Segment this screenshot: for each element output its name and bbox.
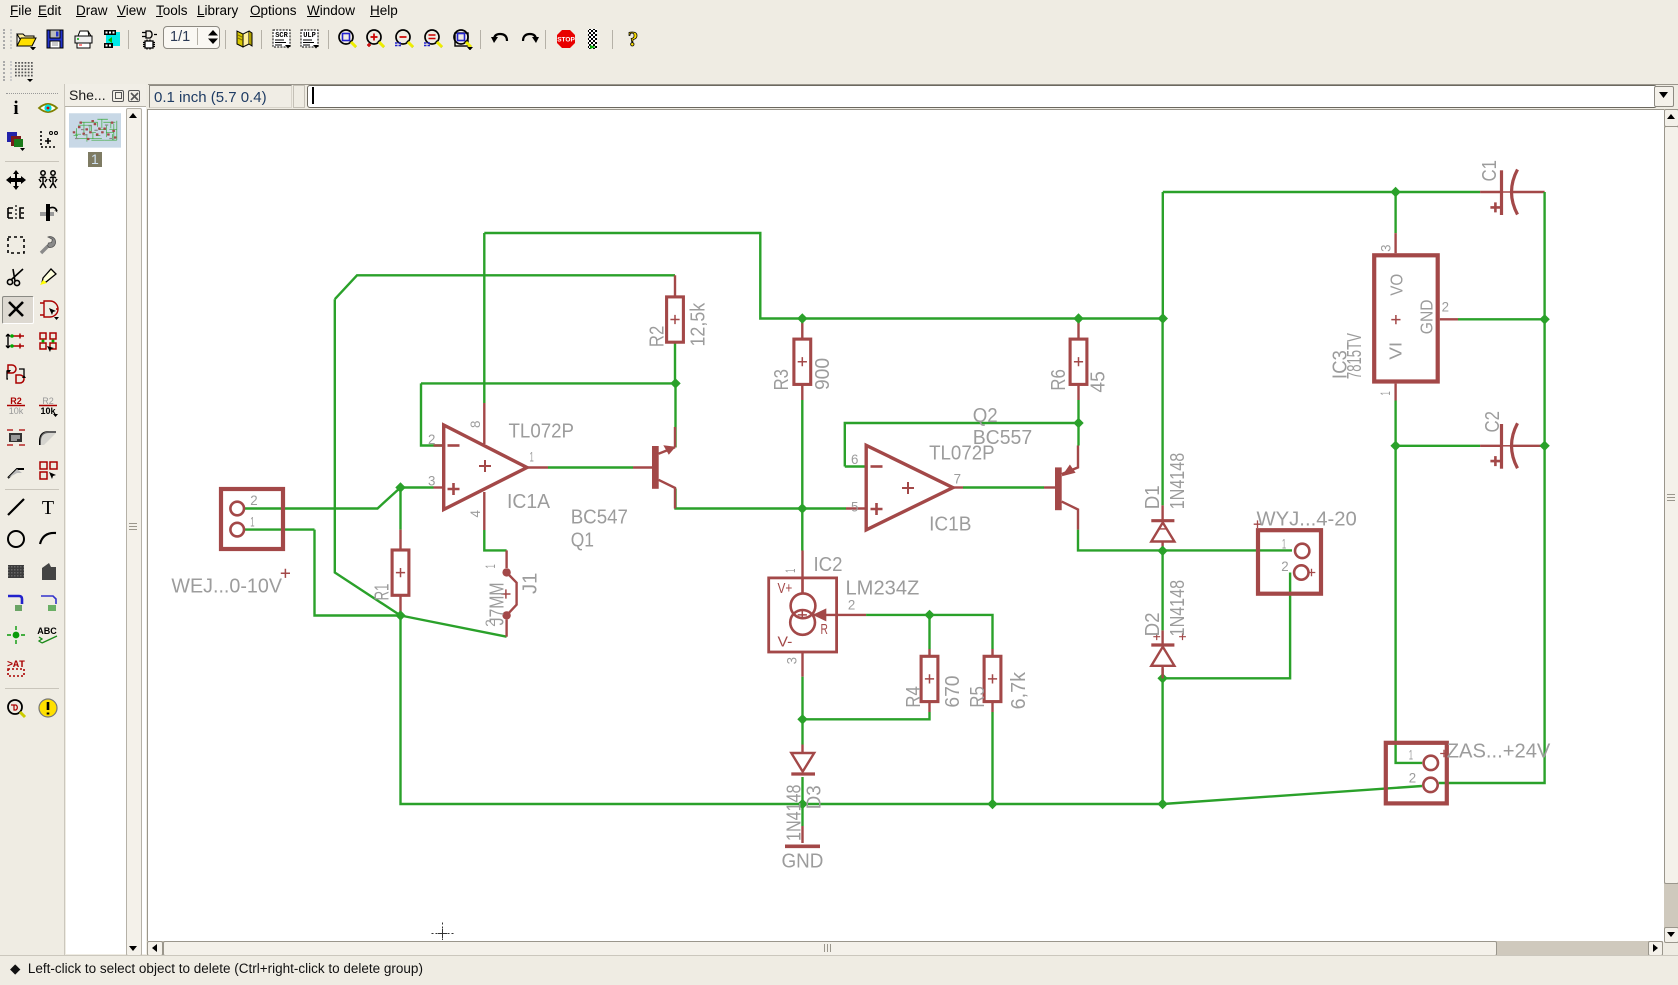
wire emitter rail to IC2 pin1 bbox=[801, 509, 803, 551]
menu bar bbox=[0, 0, 1678, 23]
junction bbox=[1073, 313, 1083, 323]
junction bbox=[1539, 314, 1549, 324]
wire D1 column upper bbox=[1162, 192, 1164, 319]
sheet 1 badge bbox=[88, 152, 101, 167]
wire GND rail diagonal to ZAS pin2 bbox=[1163, 786, 1422, 804]
wire +24V top to C1 bbox=[1163, 191, 1480, 193]
diode D3 1N4148 bbox=[791, 745, 815, 775]
cursor crosshair bbox=[432, 923, 454, 945]
wire IC1A pin2 stub bbox=[434, 444, 444, 446]
resistor R2 bbox=[667, 297, 684, 342]
wire Q2 base stub bbox=[1044, 486, 1055, 488]
wire to IC3 pin3 bbox=[1394, 192, 1396, 233]
connector X2 WYJ...4-20 bbox=[1254, 520, 1321, 593]
svg-text:SCR: SCR bbox=[275, 32, 288, 40]
svg-text:12,5k: 12,5k bbox=[687, 302, 710, 346]
wire node A diagonal to J1 pin2 bbox=[401, 616, 507, 637]
wire node to R1 top bbox=[399, 488, 401, 530]
toolbar row 2 bbox=[0, 56, 1678, 85]
junction bbox=[1157, 546, 1167, 556]
sheets panel bbox=[64, 84, 148, 955]
junction bbox=[987, 799, 997, 809]
svg-text:R1: R1 bbox=[371, 584, 394, 601]
svg-text:1: 1 bbox=[1409, 747, 1413, 763]
svg-text:5: 5 bbox=[851, 498, 859, 514]
svg-text:1: 1 bbox=[530, 449, 534, 465]
svg-text:BC547: BC547 bbox=[571, 505, 628, 528]
wire R4 top pin bbox=[928, 649, 930, 656]
svg-text:7: 7 bbox=[954, 470, 962, 486]
left tool palette bbox=[0, 84, 64, 955]
resistor R1 bbox=[392, 550, 409, 595]
svg-text:R4: R4 bbox=[902, 686, 925, 707]
wire D1 node to D2 bbox=[1161, 550, 1163, 630]
svg-text:2: 2 bbox=[1409, 770, 1417, 786]
wire net N1 top-left rail bbox=[484, 233, 1163, 319]
wire IC3 pin3 stub bbox=[1394, 233, 1396, 253]
svg-text:IC1A: IC1A bbox=[507, 490, 550, 513]
ground GND symbol bbox=[785, 844, 820, 848]
junction bbox=[1390, 441, 1400, 451]
svg-text:7815TV: 7815TV bbox=[1343, 333, 1366, 379]
status bar bbox=[0, 955, 1678, 985]
wire C2 right bbox=[1512, 445, 1545, 447]
svg-text:10k: 10k bbox=[9, 406, 24, 416]
svg-text:2: 2 bbox=[1442, 298, 1450, 314]
svg-text:ABC: ABC bbox=[37, 626, 57, 636]
wire R5 top pin bbox=[991, 649, 993, 656]
wire node to IC1A pin3 bbox=[401, 486, 434, 488]
junction bbox=[395, 610, 405, 620]
svg-text:1: 1 bbox=[782, 568, 798, 572]
horizontal scrollbar bbox=[147, 941, 1663, 956]
wire rail to D1 anode bbox=[1161, 319, 1163, 506]
wire R6 bottom pin bbox=[1077, 384, 1079, 400]
connector X3 ZAS...+24V bbox=[1386, 743, 1448, 804]
junction bbox=[1157, 673, 1167, 683]
svg-text:D2: D2 bbox=[1141, 612, 1164, 636]
wire IC1A pin1 stub bbox=[527, 466, 548, 468]
wire WEJ pin2 to IC1A pin3 bbox=[244, 488, 400, 509]
svg-text:Q2: Q2 bbox=[973, 404, 998, 427]
svg-text:IC1B: IC1B bbox=[929, 512, 971, 535]
wire R6 top pin bbox=[1077, 319, 1079, 340]
wire WEJ pin1 horizontal bbox=[244, 528, 314, 530]
current source IC2 LM234Z bbox=[769, 578, 837, 652]
wire IC1A pin8 supply drop bbox=[483, 233, 485, 403]
svg-text:900: 900 bbox=[811, 358, 834, 390]
wire IC1A output to Q1 base bbox=[548, 466, 633, 468]
svg-text:C1: C1 bbox=[1478, 160, 1501, 181]
wire IC2 pin3 stub bbox=[801, 652, 803, 677]
wire node FB to IC1A pin2 horizontal bbox=[421, 382, 676, 384]
junction bbox=[1073, 418, 1083, 428]
svg-text:?: ? bbox=[628, 28, 639, 50]
svg-text:2: 2 bbox=[250, 492, 258, 508]
toolbar row 1 bbox=[0, 22, 1678, 57]
wire R4 bottom pin bbox=[928, 701, 930, 712]
wire Q1 base stub bbox=[633, 466, 652, 468]
wire D1 to node bbox=[1161, 542, 1163, 551]
capacitor C1 (polarized) bbox=[1480, 170, 1517, 216]
svg-text:D1: D1 bbox=[1141, 485, 1164, 509]
wire Q2 collector to D1 node bbox=[1078, 530, 1163, 551]
svg-text:1N4148: 1N4148 bbox=[1166, 580, 1189, 637]
junction bbox=[797, 714, 807, 724]
junction bbox=[1157, 799, 1167, 809]
wire D3 to GND symbol bbox=[801, 826, 803, 843]
wire GND bottom rail bbox=[401, 616, 1163, 805]
svg-text:i: i bbox=[13, 98, 18, 119]
wire IC1B output to Q2 base bbox=[963, 486, 1044, 488]
svg-text:3: 3 bbox=[428, 472, 436, 488]
svg-text:R6: R6 bbox=[1047, 369, 1070, 390]
wire R3 bottom pin bbox=[801, 384, 803, 400]
wire WEJ pin1 to node A bbox=[315, 530, 401, 616]
wire D2 to node bbox=[1161, 669, 1163, 679]
diode D2 1N4148 bbox=[1151, 630, 1186, 678]
transistor Q1 BC547 bbox=[652, 427, 676, 509]
wire R5 bottom pin bbox=[991, 701, 993, 712]
svg-text:STOP: STOP bbox=[557, 37, 575, 44]
connector X1 WEJ...0-10V bbox=[221, 489, 290, 578]
svg-text:1: 1 bbox=[1282, 535, 1286, 551]
command row bbox=[0, 84, 1678, 109]
svg-text:V-: V- bbox=[778, 634, 793, 650]
svg-text:8: 8 bbox=[467, 420, 483, 428]
svg-text:2: 2 bbox=[428, 431, 436, 447]
svg-text:C2: C2 bbox=[1481, 411, 1504, 432]
resistor R4 bbox=[921, 656, 938, 701]
op-amp IC1A TL072P (gate A) bbox=[444, 403, 527, 530]
svg-text:R2: R2 bbox=[10, 396, 22, 406]
wire R3 top pin bbox=[801, 319, 803, 340]
wire IC2 pin1 stub bbox=[801, 551, 803, 594]
wire IC1B pin7 stub bbox=[953, 486, 963, 488]
vertical scrollbar bbox=[1664, 109, 1678, 941]
svg-text:670: 670 bbox=[941, 676, 964, 708]
wire to C2 left bbox=[1396, 445, 1481, 447]
junction bbox=[1158, 313, 1168, 323]
wire GND net down to ZAS pin2 bbox=[1439, 446, 1545, 783]
junction bbox=[670, 378, 680, 388]
svg-text:ZAS...+24V: ZAS...+24V bbox=[1447, 739, 1551, 762]
wire VI net down to ZAS pin1 bbox=[1396, 446, 1423, 763]
svg-text:J1: J1 bbox=[519, 573, 542, 594]
svg-text:4: 4 bbox=[467, 510, 483, 518]
sheets scrollbar bbox=[126, 108, 142, 956]
wire IC1B pin6 stub bbox=[845, 465, 866, 467]
wire WYJ pin2 to D2 node bbox=[1163, 573, 1291, 679]
junction bbox=[1539, 441, 1549, 451]
wire IC2 pin2 to R4 R5 top bbox=[866, 615, 992, 649]
wire D1 node to WYJ pin1 bbox=[1163, 549, 1292, 551]
wire C1 right bbox=[1512, 191, 1545, 193]
resistor R5 bbox=[984, 656, 1001, 701]
svg-text:TL072P: TL072P bbox=[509, 419, 575, 442]
wire Q1 collector to node FB bbox=[674, 383, 676, 447]
wire R3 bottom to emitter rail bbox=[801, 400, 803, 509]
wire left vertical to node A bbox=[335, 299, 401, 615]
svg-text:GND: GND bbox=[782, 849, 824, 872]
wire IC1A pin2 drop bbox=[421, 383, 444, 445]
capacitor C2 (polarized) bbox=[1480, 423, 1517, 469]
node VCC top rail net bbox=[0, 0, 1, 1]
wire IC1A pin3 stub bbox=[434, 486, 444, 488]
wire C1 to GND net corner bbox=[1543, 192, 1545, 319]
svg-text:45: 45 bbox=[1086, 371, 1109, 392]
svg-text:J7MM: J7MM bbox=[486, 582, 509, 625]
svg-text:R3: R3 bbox=[770, 369, 793, 390]
resistor R3 bbox=[794, 339, 811, 384]
svg-text:Q1: Q1 bbox=[571, 528, 594, 551]
svg-text:R2: R2 bbox=[42, 396, 54, 406]
svg-text:D3: D3 bbox=[802, 785, 825, 809]
wire IC3 pin1 to C2 bbox=[1394, 401, 1396, 446]
op-amp IC1B TL072P (gate B) bbox=[866, 445, 953, 530]
svg-text:6: 6 bbox=[851, 451, 859, 467]
wire R2 top pin bbox=[674, 275, 676, 296]
svg-text:LM234Z: LM234Z bbox=[846, 577, 920, 600]
svg-text:1: 1 bbox=[482, 564, 498, 568]
svg-text:3: 3 bbox=[1377, 244, 1393, 252]
svg-text:VI: VI bbox=[1385, 342, 1405, 360]
jumper J1 J7MM bbox=[501, 550, 516, 636]
sheet thumbnail bbox=[69, 111, 121, 150]
junction bbox=[1390, 187, 1400, 197]
resistor R6 bbox=[1070, 339, 1087, 384]
wire IC1A pin4 to J1 pin1 bbox=[484, 530, 506, 550]
wire IC3 pin2 to C rail bbox=[1458, 318, 1545, 320]
svg-text:1: 1 bbox=[250, 514, 254, 530]
svg-text:R2: R2 bbox=[645, 326, 668, 347]
junction bbox=[797, 503, 807, 513]
svg-text:2: 2 bbox=[1281, 558, 1289, 574]
wire C rail between C1 C2 bbox=[1543, 319, 1545, 446]
wire IC3 pin2 stub bbox=[1440, 318, 1458, 320]
svg-text:ULP: ULP bbox=[303, 32, 316, 40]
voltage regulator IC3 7815TV bbox=[1374, 255, 1438, 381]
wire IC1B pin6 feedback bbox=[845, 423, 1079, 467]
junction bbox=[797, 313, 807, 323]
wire R2 top feed bbox=[335, 275, 675, 299]
wire Q1 emitter rail bbox=[676, 489, 847, 509]
transistor Q2 BC557 bbox=[1055, 446, 1078, 530]
svg-text:1N4148: 1N4148 bbox=[783, 785, 806, 842]
svg-text:1: 1 bbox=[1377, 391, 1393, 395]
svg-text:R5: R5 bbox=[966, 686, 989, 707]
junction bbox=[797, 799, 807, 809]
svg-text:3: 3 bbox=[784, 657, 800, 665]
wire R4 bottom to pin3 node bbox=[803, 712, 930, 719]
wire D3 cathode through rail bbox=[801, 777, 803, 826]
diode D1 1N4148 bbox=[1151, 505, 1174, 541]
wire R2 bottom to node FB bbox=[674, 342, 676, 383]
wire R6 bottom to Q2 emitter bbox=[1077, 400, 1079, 446]
junction bbox=[395, 482, 405, 492]
wire R5 bottom to GND rail bbox=[991, 712, 993, 804]
svg-text:BC557: BC557 bbox=[973, 426, 1032, 449]
svg-text:6,7k: 6,7k bbox=[1007, 671, 1030, 709]
svg-text:V+: V+ bbox=[778, 581, 793, 597]
svg-text:GND: GND bbox=[1417, 300, 1437, 335]
svg-text:IC2: IC2 bbox=[814, 553, 843, 576]
wire IC2 pin3 to node bbox=[801, 677, 803, 720]
wire to R4 top bbox=[928, 615, 930, 649]
wire node to D3 anode bbox=[801, 719, 803, 744]
wire IC2 pin2 stub bbox=[813, 614, 867, 616]
wire IC1B pin5 stub bbox=[846, 507, 866, 509]
wire R1 bottom pin bbox=[399, 596, 401, 616]
svg-text:WYJ...4-20: WYJ...4-20 bbox=[1257, 508, 1357, 531]
wire IC3 pin1 stub bbox=[1394, 384, 1396, 401]
canvas bbox=[147, 109, 1664, 942]
junction bbox=[924, 610, 934, 620]
svg-text:WEJ...0-10V: WEJ...0-10V bbox=[171, 575, 282, 598]
wire R1 top pin bbox=[399, 530, 401, 550]
wire D2 node to GND rail bbox=[1161, 678, 1163, 804]
svg-text:VO: VO bbox=[1386, 274, 1406, 296]
svg-text:R: R bbox=[821, 622, 828, 638]
svg-text:1N4148: 1N4148 bbox=[1166, 453, 1189, 510]
svg-text:T: T bbox=[42, 497, 54, 518]
